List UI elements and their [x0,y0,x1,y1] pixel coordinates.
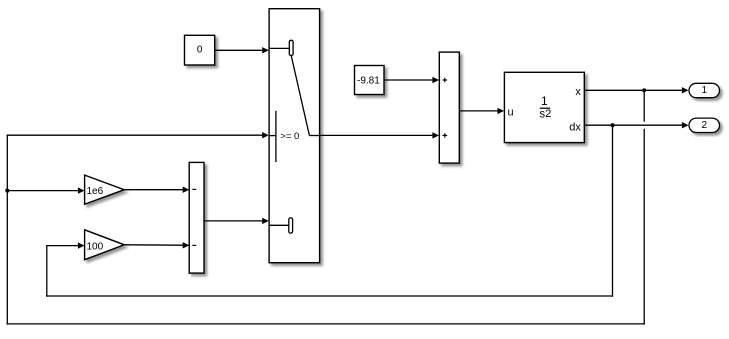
svg-text:1: 1 [702,85,708,96]
outport 2 [689,118,720,132]
svg-text:>= 0: >= 0 [280,131,299,142]
junction dot on x wire [642,88,646,92]
svg-text:dx: dx [569,121,581,133]
wire W5 feedback: bottom horizontal [7,323,645,325]
gain block 100 [85,230,125,260]
constant block "0" [185,35,215,65]
Add2 minus sign input 2 [192,244,196,246]
wire W6 feedback: into gain 100 [46,242,84,248]
switch port2 internal line [269,135,276,137]
Add1 plus sign input 1 [443,78,448,83]
svg-text:u: u [508,106,514,118]
wire W5 feedback: vertical below crossing [643,129,645,325]
outport 1 [689,83,720,97]
switch port3 internal line [269,224,289,226]
switch selector diagonal [291,56,309,136]
switch port1 internal line [269,47,289,49]
gain block 1e6 [85,175,125,204]
integrator block 1/s^2 [504,72,584,142]
constant block "-9.81" [355,66,385,95]
wire W1: constant 0 to switch input 1 [215,47,269,53]
svg-text:1: 1 [541,94,548,108]
switch selector to output line [309,135,319,137]
svg-text:2: 2 [702,120,708,131]
wire W7b: gain 1e6 to Add2 input 1 [124,187,189,193]
switch block [269,9,320,263]
wire W4: Add1 output to integrator u [459,108,504,114]
svg-text:100: 100 [87,241,104,252]
wire W9: Add2 output to switch input 3 [204,218,269,224]
svg-text:0: 0 [197,44,203,55]
Add2 minus sign input 1 [192,188,196,190]
switch port3 handle [289,218,293,233]
integrator fraction bar [540,107,550,109]
sum block Add2 [189,162,204,273]
switch threshold line [275,111,277,162]
wire W6 feedback: bottom horizontal [46,295,613,297]
wire W7: branch to gain 1e6 [7,187,84,193]
svg-text:x: x [575,86,581,98]
junction dot on dx wire [610,123,614,127]
sum block Add1 [439,52,459,163]
wire W6 feedback: dx junction down [612,125,614,297]
wire W6 feedback: left vertical up [46,245,48,297]
wire W5 feedback: top horizontal into switch port2 [7,132,269,138]
wire W8: gain 100 to Add2 input 2 [124,242,189,248]
svg-text:1e6: 1e6 [87,186,104,197]
switch port1 handle [289,40,293,55]
wire W6: integrator dx to outport 2 [584,122,688,128]
wire W5 feedback: left vertical [6,135,8,325]
wire W5: integrator x to outport 1 [584,87,688,93]
junction dot on left vertical [5,189,9,193]
svg-text:-9.81: -9.81 [357,75,380,86]
Add1 plus sign input 2 [443,133,448,138]
wire W3: -9.81 to sum1 input 1 [384,77,439,83]
wire W2: switch output to sum1 input 2 [320,132,439,138]
wire W5 feedback: x junction down [643,90,645,121]
svg-text:2: 2 [545,108,551,120]
